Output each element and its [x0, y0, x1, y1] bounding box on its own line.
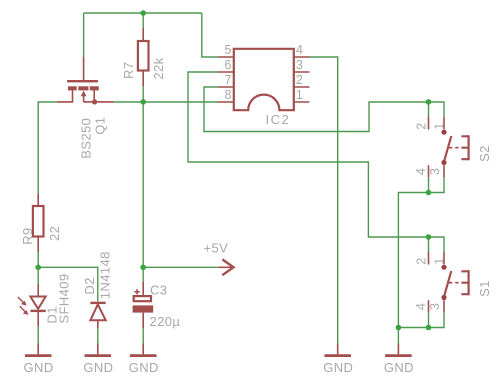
- svg-text:GND: GND: [24, 360, 54, 375]
- svg-text:1: 1: [296, 88, 303, 102]
- svg-text:Q1: Q1: [92, 117, 107, 135]
- svg-text:GND: GND: [83, 360, 113, 375]
- svg-text:GND: GND: [323, 360, 353, 375]
- svg-text:4: 4: [296, 43, 303, 57]
- svg-text:4: 4: [414, 303, 428, 310]
- svg-text:GND: GND: [129, 360, 159, 375]
- svg-text:+5V: +5V: [204, 240, 229, 255]
- svg-text:1: 1: [433, 258, 447, 265]
- svg-text:3: 3: [428, 303, 442, 310]
- svg-text:2: 2: [414, 258, 428, 265]
- svg-text:8: 8: [225, 88, 232, 102]
- svg-text:3: 3: [428, 168, 442, 175]
- svg-text:1: 1: [433, 123, 447, 130]
- svg-text:IC2: IC2: [266, 112, 291, 127]
- svg-text:5: 5: [225, 43, 232, 57]
- svg-text:3: 3: [296, 58, 303, 72]
- svg-text:BS250: BS250: [79, 118, 94, 159]
- svg-text:S2: S2: [477, 145, 492, 162]
- svg-text:GND: GND: [384, 360, 414, 375]
- svg-text:SFH409: SFH409: [56, 274, 71, 324]
- svg-text:22k: 22k: [151, 57, 166, 79]
- svg-text:220µ: 220µ: [150, 314, 181, 329]
- svg-text:R9: R9: [20, 227, 35, 244]
- svg-text:S1: S1: [477, 280, 492, 297]
- svg-text:R7: R7: [121, 62, 136, 79]
- svg-text:D2: D2: [82, 277, 97, 294]
- svg-text:4: 4: [414, 168, 428, 175]
- svg-text:6: 6: [225, 58, 232, 72]
- svg-text:7: 7: [225, 73, 232, 87]
- svg-text:2: 2: [414, 123, 428, 130]
- svg-text:C3: C3: [150, 283, 167, 298]
- svg-text:2: 2: [296, 73, 303, 87]
- svg-text:1N4148: 1N4148: [98, 251, 113, 299]
- svg-text:22: 22: [47, 226, 62, 241]
